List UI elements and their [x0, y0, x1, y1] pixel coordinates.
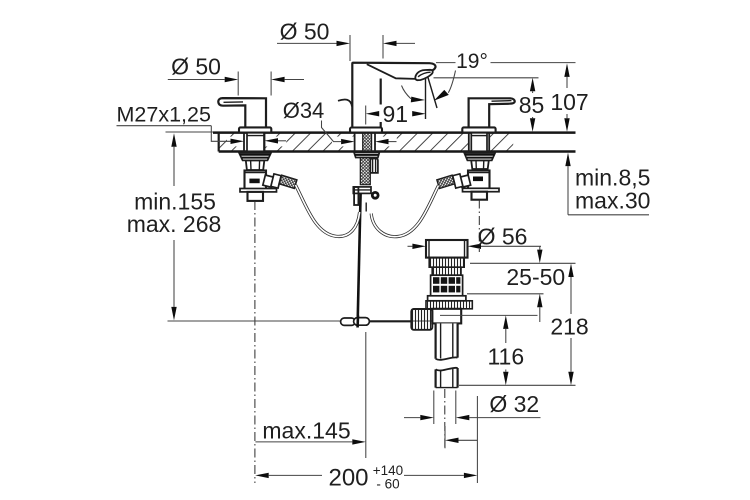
dimension 116 [487, 315, 524, 385]
dimension 25-50 [506, 246, 565, 322]
dimension 107 [550, 63, 588, 131]
svg-text:Ø 50: Ø 50 [171, 54, 221, 80]
right handle locknut [464, 152, 495, 160]
right handle escutcheon [462, 127, 495, 132]
dimension Ø56 [408, 224, 542, 250]
right handle centerline [478, 200, 480, 253]
left valve body [245, 171, 267, 190]
label Ø34 with leader and hole arrows [265, 98, 397, 144]
right handle lower shank [471, 160, 489, 169]
reference line pipe end [459, 384, 576, 386]
right flexible hose [371, 186, 438, 237]
spout side hook detail [338, 100, 352, 107]
svg-text:107: 107 [550, 89, 588, 115]
dimension max.145 [255, 332, 365, 458]
chain link 2 [354, 318, 370, 326]
left hose nipple [263, 175, 274, 187]
svg-text:Ø 50: Ø 50 [280, 19, 330, 45]
pull-rod reference line [168, 320, 433, 322]
svg-text:M27x1,25: M27x1,25 [117, 103, 211, 127]
drain top cylinder [426, 240, 468, 258]
right valve bottom block [472, 192, 488, 200]
left valve bottom block [248, 192, 264, 201]
left flexible hose [296, 185, 360, 236]
svg-text:max.30: max.30 [575, 188, 650, 214]
dimension 91 [366, 101, 426, 127]
left hose nut [271, 174, 281, 188]
left handle centerline [254, 201, 256, 483]
svg-text:200: 200 [328, 465, 368, 492]
left handle shank in hole [247, 133, 264, 152]
drain knurled cap [429, 258, 464, 276]
right valve body [468, 171, 490, 190]
dimension 85 [434, 78, 545, 132]
drain rod knob [411, 309, 432, 330]
svg-text:max.145: max.145 [262, 417, 350, 443]
spout locknut [354, 152, 379, 157]
svg-text:85: 85 [519, 92, 545, 118]
right hose nipple [459, 175, 470, 187]
drain striped nut [426, 301, 472, 309]
spout side outlet tube [370, 159, 378, 173]
drain slotted basket [431, 275, 463, 296]
svg-text:Ø34: Ø34 [283, 98, 325, 123]
spout body [352, 63, 435, 129]
svg-text:19°: 19° [456, 50, 488, 73]
spout shank braid in hole [363, 133, 372, 152]
left handle lever [218, 98, 266, 129]
reference line drain top [470, 262, 576, 264]
pop-up rod [358, 193, 361, 320]
svg-text:max. 268: max. 268 [127, 211, 222, 237]
label M27x1,25 with leader [117, 103, 245, 145]
reference line rod level [440, 314, 538, 316]
right handle shank in hole [471, 133, 487, 152]
dimension min155 max268 [127, 132, 222, 320]
right handle lever [469, 98, 515, 128]
svg-text:218: 218 [550, 314, 588, 340]
spout shank braid below counter [360, 158, 370, 185]
svg-text:116: 116 [487, 344, 524, 370]
svg-text:Ø 32: Ø 32 [489, 391, 539, 417]
drain flange [428, 296, 466, 301]
label 19 degrees with leader arc [402, 50, 576, 119]
dimension pipe offset [445, 426, 477, 448]
ball joint [371, 191, 380, 200]
dimension Ø50 left (handle escutcheon) [168, 54, 304, 96]
svg-text:25-50: 25-50 [506, 264, 565, 290]
svg-text:- 60: - 60 [376, 477, 399, 492]
rod clamp on spout shank [353, 187, 371, 205]
right braided hose end [437, 175, 455, 188]
right valve flange [463, 188, 500, 191]
left valve flange [240, 189, 277, 192]
dimension 200 +140 -60 [255, 396, 477, 492]
svg-text:91: 91 [383, 101, 409, 127]
dimension 218 [550, 264, 588, 386]
left braided hose end [279, 175, 297, 188]
dimension min8,5 max30 [565, 153, 650, 215]
dimension Ø50 top (spout base) [277, 19, 415, 62]
left handle escutcheon [239, 127, 271, 132]
left handle locknut [239, 152, 271, 160]
reference line drain flange [467, 293, 544, 295]
spout base plate [350, 128, 382, 133]
drain tee body [432, 309, 461, 324]
countertop slab [213, 133, 576, 152]
spout centerline dashes [365, 203, 367, 212]
left handle lower shank [246, 160, 264, 170]
right hose nut [453, 174, 463, 188]
dimension Ø32 [404, 391, 541, 425]
horizontal pull rod [369, 320, 411, 322]
spout aerator [415, 70, 432, 80]
svg-text:Ø 56: Ø 56 [478, 224, 528, 250]
drain centerline [444, 389, 446, 448]
chain link 1 [341, 318, 356, 325]
drain tailpipe [436, 323, 458, 387]
